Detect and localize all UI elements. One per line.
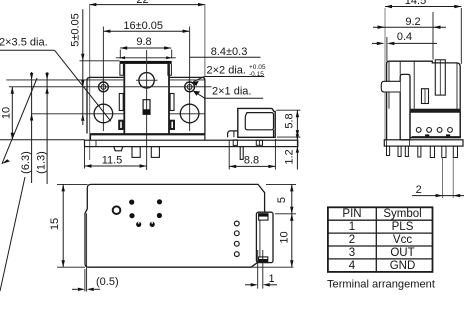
lens horizontal centerline <box>136 79 158 81</box>
label 8.4 underline <box>190 56 261 58</box>
pin dot 5 notch <box>138 222 140 224</box>
thin top reference line over flange <box>116 57 176 59</box>
svg-text:PLS: PLS <box>392 221 414 233</box>
long diagonal to bottom left <box>0 177 25 291</box>
dim 15 line <box>62 184 64 267</box>
ext 5.8 top <box>276 109 300 111</box>
svg-text:10: 10 <box>0 107 12 119</box>
dim 10 line <box>11 87 13 140</box>
hole centerline left <box>102 27 104 132</box>
trv pin 2 <box>398 146 401 156</box>
ext 11.5 left <box>84 147 86 169</box>
thin plate inner step line <box>95 141 97 147</box>
socket circle 3 <box>234 241 239 246</box>
dim 5 arrow top <box>290 184 293 191</box>
dim 1 arrow left (outside) <box>251 283 258 286</box>
dim 14.5 arrow left <box>385 5 392 8</box>
right wing second line <box>169 79 205 81</box>
dim (6.3) arrow at top ref <box>30 73 33 80</box>
latch wall <box>400 61 414 108</box>
dim 11.5 arrow left <box>85 164 92 167</box>
inner left wall <box>388 62 390 109</box>
ext 9.2 right <box>432 12 434 60</box>
small inner rect divider <box>424 89 426 104</box>
svg-text:9.8: 9.8 <box>136 36 151 48</box>
dim 0.4 left piece <box>372 42 377 44</box>
dim 1.2 arrow bottom <box>296 147 299 153</box>
pin right (front view) <box>151 147 159 158</box>
lower dark tab left <box>119 121 123 129</box>
tower vertical centerline <box>146 50 148 170</box>
ext 5.8 bottom <box>277 136 300 138</box>
trv pin 3 <box>405 146 408 156</box>
svg-text:5: 5 <box>276 197 288 203</box>
latch tab <box>381 81 400 92</box>
socket circle 1 <box>234 221 239 226</box>
mounting hole right <box>180 104 199 123</box>
inner right wall <box>456 64 458 111</box>
ext 14.5 left (through view) <box>384 8 386 140</box>
pin dot 5 <box>136 222 141 227</box>
dim 16 arrow right <box>183 30 190 33</box>
svg-text:GND: GND <box>390 260 416 272</box>
connector inner left line <box>259 220 261 257</box>
dim 11.5 arrow right <box>140 164 147 167</box>
dim 2 arrow right (outside) <box>453 194 460 197</box>
dim 8.8 arrow left <box>229 165 236 168</box>
svg-text:5±0.05: 5±0.05 <box>70 13 82 47</box>
flange top bar (filled) <box>120 61 172 64</box>
dim 9.2 line <box>373 26 446 28</box>
socket circle 4 <box>234 252 239 257</box>
lower dark tab right <box>170 121 174 129</box>
dim 5 arrow at axis <box>81 80 84 87</box>
lens circle <box>139 73 154 88</box>
pin dot 1 <box>129 200 134 205</box>
svg-text:(6.3): (6.3) <box>20 151 32 174</box>
dim (6.3) arrow at hole axis <box>30 114 33 121</box>
dim 22 arrow right <box>198 3 205 6</box>
svg-text:1.2: 1.2 <box>284 149 296 164</box>
svg-text:(1.3): (1.3) <box>35 151 47 174</box>
side view slot bottom <box>273 130 275 138</box>
dim 0.5 arrow left (outside) <box>78 288 85 291</box>
dim 5 arrow at tower top <box>81 54 84 61</box>
connector top latch dark band <box>259 214 268 217</box>
svg-text:8.4±0.3: 8.4±0.3 <box>211 46 248 58</box>
bottom edge extension right <box>251 266 293 268</box>
pin extension line b <box>452 158 454 199</box>
mounting hole left <box>94 104 113 123</box>
main horizontal centerline <box>9 86 212 88</box>
flange lip left <box>120 64 124 75</box>
ext 1 dim a <box>257 250 259 289</box>
connector bottom latch <box>259 257 268 262</box>
tower side tab right <box>170 94 174 111</box>
tower left edge <box>123 64 125 134</box>
dim 0.5 left piece <box>72 288 78 290</box>
block pin circle 4 <box>448 127 453 132</box>
dim 10 arrow bottom <box>11 133 14 140</box>
side view outline <box>238 108 275 137</box>
svg-text:OUT: OUT <box>390 247 414 259</box>
ext 15 bottom <box>57 266 85 268</box>
extension line right of 22 <box>204 4 206 77</box>
label 2x1 leader <box>194 92 205 99</box>
svg-text:9.2: 9.2 <box>405 16 420 28</box>
svg-text:8.8: 8.8 <box>244 154 259 166</box>
slot dark bottom <box>143 109 150 114</box>
trv pin 7 <box>453 146 457 157</box>
trv pin 4 <box>418 146 421 157</box>
dim 5 arrow bottom <box>290 207 293 214</box>
label 2x3.5 underline <box>0 49 55 51</box>
block pin circle 3 <box>437 127 442 132</box>
dim 0.4 arrow right (outside) <box>387 42 395 45</box>
dim 5.8 line <box>296 110 298 137</box>
dim 0.5 right piece <box>94 288 100 290</box>
seating reference line to left edge <box>0 139 85 141</box>
dim (1.3) line <box>46 72 48 184</box>
dim 10 (bottom view) line <box>291 214 293 267</box>
svg-text:2: 2 <box>416 184 422 196</box>
dim 9.2 arrow right (outside) <box>433 26 441 29</box>
pin dot 4 <box>157 213 162 218</box>
left wing second line + extension to left <box>6 79 123 81</box>
svg-text:14.5: 14.5 <box>405 0 426 7</box>
svg-text:0.4: 0.4 <box>397 31 412 43</box>
svg-text:2×2 dia.: 2×2 dia. <box>207 65 246 77</box>
svg-text:16±0.05: 16±0.05 <box>123 20 163 32</box>
small hole right outer <box>185 82 195 92</box>
pin left (front view) <box>132 147 140 158</box>
label 2x2 underline <box>204 76 264 78</box>
label 2x2 leader arrow <box>192 81 199 86</box>
table row line 4 <box>328 258 433 260</box>
dim 22 line <box>89 4 205 6</box>
top right view body outline <box>387 61 461 140</box>
extension line left of 22 <box>89 4 91 160</box>
ext 9.8 right <box>171 50 173 59</box>
dim 9.8 line <box>120 47 171 49</box>
ext 0.5 dim b <box>86 213 88 291</box>
dim 2 line <box>412 195 464 197</box>
svg-text:2×1 dia.: 2×1 dia. <box>212 86 251 98</box>
svg-text:22: 22 <box>136 0 148 6</box>
channel rect <box>435 60 445 95</box>
connector block body <box>410 112 460 138</box>
hole centerline right <box>189 27 191 132</box>
tower right edge <box>168 64 170 134</box>
dim 14.5 line <box>385 6 461 8</box>
pin dot 6 notch <box>151 222 153 224</box>
dim 0.5 arrow right (outside) <box>87 288 94 291</box>
dim 9.8 arrow right <box>164 46 171 49</box>
plate divider mid <box>409 140 411 146</box>
connector bottom latch dark band <box>259 259 268 262</box>
ext body left edge up <box>386 37 388 61</box>
socket circle 2 <box>234 231 239 236</box>
svg-text:4: 4 <box>349 260 356 272</box>
top right plate <box>384 140 463 146</box>
dim 1 arrow right (outside) <box>263 283 270 286</box>
ext 5 top right <box>266 183 296 185</box>
base upper plate <box>91 134 205 140</box>
dim 5.8 arrow bottom <box>296 130 299 137</box>
plate divider left <box>386 140 388 146</box>
label 2x2 leader <box>193 77 204 82</box>
svg-text:10: 10 <box>279 231 291 243</box>
dim 0.4 arrow left (outside) <box>377 42 385 45</box>
svg-text:5.8: 5.8 <box>284 113 296 128</box>
small hole left inner <box>101 85 106 90</box>
pin dot 6 <box>150 222 155 227</box>
small arrow at flange left <box>120 56 126 59</box>
side view foot inner line <box>233 131 235 137</box>
dim 16 arrow left <box>103 30 110 33</box>
dim 1.2 arrow top <box>296 134 299 140</box>
trv pin 5 <box>430 146 434 157</box>
dim (1.3) arrow bottom <box>45 87 48 94</box>
flange lip right <box>168 64 172 75</box>
alignment boss under plate <box>114 147 123 151</box>
table row line 2 <box>328 232 433 234</box>
trv pin 1 <box>387 146 390 155</box>
base thin plate <box>85 140 298 146</box>
tower side tab left <box>119 94 123 111</box>
dim 10 arrow top <box>290 214 293 221</box>
small inner rect <box>422 89 429 104</box>
dim 10 arrow top <box>11 87 14 94</box>
svg-text:Symbol: Symbol <box>383 208 421 220</box>
dim (1.3) arrow top <box>45 73 48 80</box>
pin below plate (side view) <box>240 147 243 160</box>
ext 15 top <box>57 183 88 185</box>
svg-text:2: 2 <box>349 234 355 246</box>
dim 0.4 right piece <box>394 42 437 44</box>
small hole left outer <box>99 82 109 92</box>
ext 8.8 right <box>274 139 276 170</box>
pin hole in plate under foot <box>233 140 237 146</box>
stacked arrow on 5 line at hole axis <box>81 114 84 121</box>
ext 9.8 left <box>119 50 121 59</box>
block pin circle 2 <box>427 127 432 132</box>
mounting hole axis line right <box>169 113 206 115</box>
dim 16±0.05 line <box>103 30 189 32</box>
svg-text:1: 1 <box>268 273 274 285</box>
pin dot 2 <box>157 199 162 204</box>
dim 1.2 line <box>296 137 298 170</box>
leader diagonal with arrow to lower left <box>2 78 37 164</box>
dim 9.2 arrow left (outside) <box>378 26 386 29</box>
block bottom heavy edge <box>412 136 461 138</box>
svg-text:+0.05: +0.05 <box>249 64 266 71</box>
dim 11.5 line <box>85 165 147 167</box>
connector outline (bottom view) <box>256 212 273 262</box>
dim 5.8 arrow top <box>296 110 299 117</box>
ext 14.5 right <box>460 8 462 64</box>
connector top latch <box>259 214 268 220</box>
svg-text:Vcc: Vcc <box>393 234 412 246</box>
table row line 1 <box>328 219 433 221</box>
dim 15 arrow top <box>62 184 65 191</box>
pin dot 3 <box>129 213 134 218</box>
dim 22 arrow left <box>89 3 96 6</box>
dim 8.8 line <box>229 165 275 167</box>
channel inner line <box>439 60 441 95</box>
svg-text:15: 15 <box>49 218 61 230</box>
bottom view outline bottom/left <box>85 184 251 267</box>
svg-text:1: 1 <box>349 221 355 233</box>
svg-text:2×3.5 dia.: 2×3.5 dia. <box>0 37 48 49</box>
label 2x1 underline <box>205 97 264 99</box>
trv pin 6 <box>442 146 446 157</box>
block nub 2 <box>446 134 450 137</box>
connector block top bar <box>410 109 460 112</box>
dim 2 arrow left (outside) <box>436 194 443 197</box>
small hole right inner <box>187 85 192 90</box>
base upper plate thick top edge <box>91 133 205 135</box>
dim 5±0.05 line <box>82 9 84 125</box>
right wing outline <box>169 77 205 133</box>
block pin circle 1 <box>416 127 421 132</box>
ring hole <box>113 206 121 214</box>
ext 1 dim b <box>262 250 264 289</box>
table row line 3 <box>328 245 433 247</box>
dim 14.5 arrow right <box>454 5 461 8</box>
dim 15 arrow bottom <box>62 260 65 267</box>
dim 1 right piece <box>270 284 277 286</box>
bottom right chamfer <box>251 263 257 267</box>
ext 8.8 left <box>228 140 230 170</box>
side view slot top <box>245 113 273 130</box>
left wing outline <box>87 77 123 133</box>
table outer border <box>328 207 433 272</box>
slot rectangle <box>143 100 150 115</box>
svg-text:PIN: PIN <box>342 208 361 220</box>
svg-text:(0.5): (0.5) <box>96 276 119 288</box>
label 2x3.5 leader <box>55 50 111 121</box>
small arrow at flange right <box>166 56 172 59</box>
dim 5 (bottom view) line <box>291 184 293 213</box>
svg-text:11.5: 11.5 <box>102 155 123 167</box>
ext mid (latch top) <box>275 213 296 215</box>
post (tower side) <box>400 74 410 139</box>
ext 0.5 dim a <box>84 269 86 292</box>
table column divider <box>375 207 377 272</box>
ext for 5 dim at tower top <box>80 60 120 62</box>
dim 9.8 arrow left <box>120 46 127 49</box>
side view foot <box>228 131 238 137</box>
svg-text:Terminal arrangement: Terminal arrangement <box>327 278 435 290</box>
dim 1 left piece <box>245 284 251 286</box>
pin hole square divider <box>258 140 260 145</box>
pin extension line a <box>442 158 444 199</box>
label 2x1 leader arrow <box>193 91 200 96</box>
block nub 1 <box>425 134 429 137</box>
pin hole square mid plate <box>256 140 262 145</box>
bottom view outline top/right <box>91 184 265 212</box>
svg-text:3: 3 <box>349 247 355 259</box>
dim 10 arrow bottom <box>290 260 293 267</box>
dim 8.8 arrow right <box>268 165 275 168</box>
mounting hole axis line left <box>32 113 125 115</box>
dim (6.3) line <box>31 72 33 183</box>
leader diagonal arrowhead <box>2 159 10 164</box>
